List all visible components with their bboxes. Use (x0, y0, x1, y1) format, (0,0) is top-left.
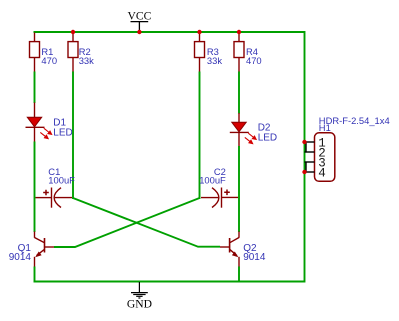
LED D1 (26, 103, 52, 143)
wire R2 column down to C1 node (72, 72, 74, 200)
svg-text:100uF: 100uF (48, 174, 75, 185)
wire right vertical (VCC rail to header / GND) (304, 31, 306, 283)
wire R4 to D2 (238, 72, 240, 114)
wire GND rail (34, 281, 305, 283)
svg-text:33k: 33k (79, 55, 94, 66)
connector H1 (305, 133, 335, 182)
junction dot R3/VCC (197, 30, 201, 34)
junction dot R4/VCC (237, 30, 241, 34)
wire D2 to Q2 collector (238, 146, 240, 232)
wire VCC rail (34, 31, 305, 33)
wire D1 to Q1 collector (34, 142, 36, 233)
svg-text:LED: LED (53, 128, 72, 139)
ground symbol (131, 282, 148, 298)
svg-text:33k: 33k (207, 55, 222, 66)
svg-text:9014: 9014 (243, 252, 266, 263)
wire R3 column down to C2 node (199, 72, 201, 200)
svg-text:H1: H1 (319, 122, 331, 133)
junction dot header pin 1 (302, 140, 306, 144)
resistor R4 (234, 33, 244, 73)
junction dot VCC stub (137, 30, 141, 34)
wire C2 node diagonal to Q1 base (54, 198, 200, 247)
svg-text:470: 470 (246, 55, 262, 66)
svg-text:9014: 9014 (9, 252, 32, 263)
svg-text:100uF: 100uF (199, 174, 226, 185)
LED D2 (230, 113, 256, 147)
transistor Q1 (35, 232, 55, 268)
svg-text:VCC: VCC (127, 10, 151, 23)
svg-text:4: 4 (318, 166, 326, 180)
junction dot header pin 4 (302, 170, 306, 174)
capacitor C1 (36, 188, 73, 208)
svg-text:LED: LED (258, 133, 277, 144)
resistor R2 (68, 33, 78, 73)
wire C1 node diagonal to Q2 base (73, 198, 220, 247)
resistor R3 (195, 33, 205, 73)
svg-text:GND: GND (127, 298, 152, 311)
node VCC symbol (127, 10, 151, 32)
wire R1 to D1 (34, 72, 36, 104)
resistor R1 (30, 33, 40, 73)
wire Q2 emitter to GND rail (238, 267, 240, 283)
junction dot R2/VCC (71, 30, 75, 34)
svg-text:470: 470 (41, 55, 57, 66)
capacitor C2 (201, 188, 238, 208)
transistor Q2 (220, 232, 239, 268)
wire Q1 emitter to GND rail (34, 267, 36, 283)
